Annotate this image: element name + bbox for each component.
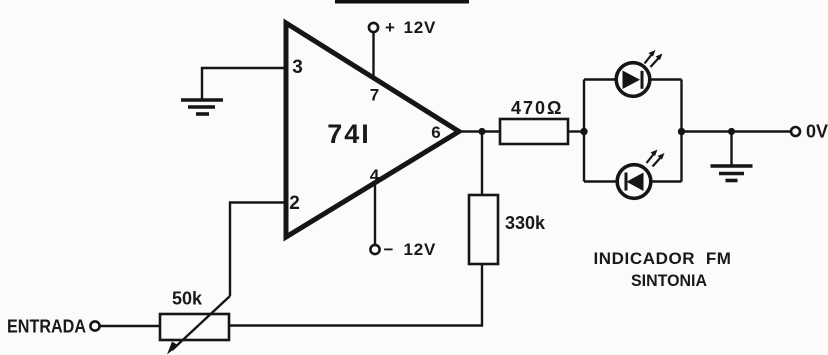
svg-text:50k: 50k xyxy=(172,289,203,309)
svg-text:74I: 74I xyxy=(327,119,371,149)
svg-text:7: 7 xyxy=(370,86,379,105)
svg-text:INDICADOR FM: INDICADOR FM xyxy=(593,249,731,268)
svg-text:SINTONIA: SINTONIA xyxy=(631,271,707,290)
svg-text:330k: 330k xyxy=(505,213,546,233)
svg-text:ENTRADA: ENTRADA xyxy=(7,317,86,337)
svg-text:4: 4 xyxy=(370,166,380,185)
svg-text:0V: 0V xyxy=(806,122,828,142)
svg-text:3: 3 xyxy=(292,57,303,78)
svg-text:2: 2 xyxy=(289,193,300,214)
svg-text:+12V: +12V xyxy=(385,18,436,37)
svg-text:−12V: −12V xyxy=(384,240,437,259)
svg-text:6: 6 xyxy=(431,123,440,142)
svg-text:470Ω: 470Ω xyxy=(511,98,563,118)
